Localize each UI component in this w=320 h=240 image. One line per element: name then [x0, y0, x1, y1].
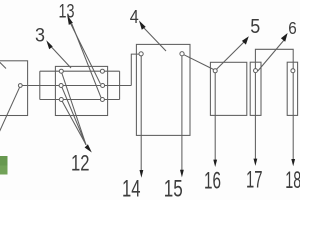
arrowhead 14: [140, 170, 144, 178]
drop wire to arrow 18: [292, 73, 294, 160]
terminal circle in second narrow box: [291, 69, 295, 73]
wire from right bus to box 4 (L shape): [131, 54, 139, 85]
terminal circle on left box: [18, 84, 22, 88]
left box (feed unit, partially cut at left edge): [0, 61, 28, 116]
drop wire to arrow 17: [254, 73, 256, 159]
main assembly box 3: [55, 66, 107, 115]
drop wire to arrow 14: [140, 56, 142, 171]
green watermark fragment at left edge: [0, 156, 8, 166]
svg-text:14: 14: [122, 176, 141, 201]
wire box4 to box5: [184, 55, 214, 70]
svg-text:16: 16: [204, 168, 221, 195]
arrowhead 18: [291, 159, 295, 166]
box 5: [210, 62, 246, 115]
left bus bar: [39, 71, 41, 99]
svg-text:15: 15: [164, 176, 183, 201]
arrowhead 16: [213, 160, 217, 167]
terminal circle in first narrow box: [254, 69, 258, 73]
leader line for label 6: [258, 40, 285, 72]
row 1 wire: [40, 70, 120, 72]
right bus bar: [119, 71, 121, 99]
terminal circle in box 5: [213, 69, 217, 73]
drop wire to arrow 16: [214, 73, 216, 160]
wire from left box circle to middle row: [20, 85, 40, 87]
arrowhead of leader 5: [242, 36, 249, 44]
roller circles, right column of box 3: [100, 69, 104, 73]
roller circles, left column of box 3: [59, 69, 63, 73]
leader line for label 4: [144, 28, 167, 52]
terminal circles in box 4: [139, 52, 143, 56]
narrow box (second separator): [287, 62, 297, 115]
leader line from left box circle toward off-image label 1: [0, 87, 20, 131]
arrowhead 15: [180, 170, 184, 178]
svg-text:13: 13: [59, 1, 75, 23]
arrowhead of leader 13: [67, 15, 73, 25]
arrowhead 17: [254, 159, 258, 166]
drop wire to arrow 15: [181, 56, 183, 171]
narrow box (first separator): [250, 62, 261, 115]
bridge wire linking narrow boxes: [255, 49, 293, 68]
svg-text:5: 5: [250, 16, 260, 38]
leader lines for label 12 (three, to left circles): [62, 73, 86, 145]
svg-text:3: 3: [35, 26, 45, 47]
leader lines for label 13: [71, 24, 101, 84]
leader stub entering left box from off-image label: [0, 62, 6, 69]
svg-text:18: 18: [285, 167, 300, 194]
svg-text:4: 4: [130, 7, 139, 27]
arrowhead of leader 12: [85, 144, 92, 152]
arrowhead of leader 4: [139, 21, 146, 30]
svg-text:12: 12: [71, 151, 90, 176]
leader line for label 3: [51, 46, 72, 68]
arrowhead of leader 3: [46, 40, 52, 49]
svg-text:6: 6: [288, 18, 297, 38]
leader line for label 5: [217, 42, 245, 70]
row 3 wire: [40, 99, 120, 101]
row 2 wire: [22, 85, 131, 87]
box 4: [136, 44, 190, 135]
svg-text:17: 17: [246, 167, 263, 194]
arrowhead of leader 6: [281, 33, 288, 42]
